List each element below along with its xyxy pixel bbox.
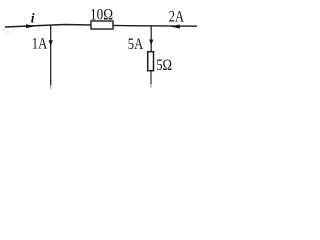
svg-text:5A: 5A — [128, 36, 144, 53]
svg-text:1A: 1A — [32, 36, 48, 53]
svg-text:5Ω: 5Ω — [156, 57, 172, 74]
svg-text:i: i — [31, 10, 35, 25]
svg-text:2A: 2A — [169, 9, 185, 26]
svg-text:10Ω: 10Ω — [90, 7, 113, 24]
